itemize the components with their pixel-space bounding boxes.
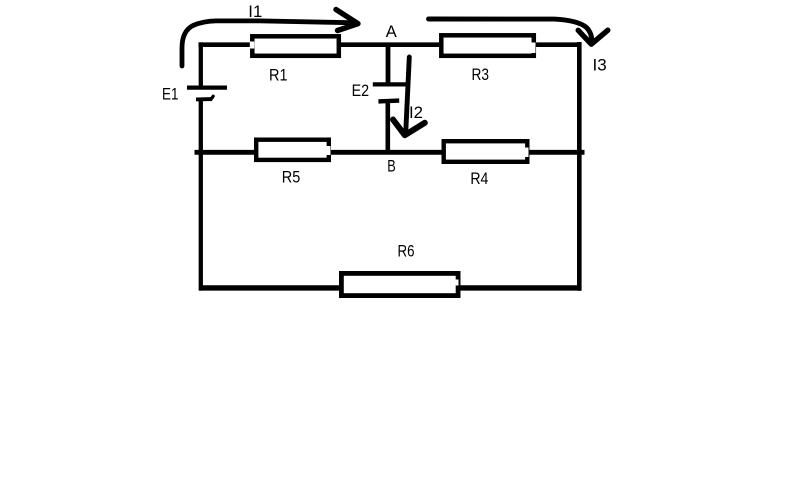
current arrow I2 head (393, 120, 425, 136)
svg-text:R6: R6 (398, 243, 415, 261)
resistor R1 (252, 36, 338, 56)
svg-text:R4: R4 (470, 170, 488, 188)
svg-text:I3: I3 (593, 56, 607, 74)
wire bottom horizontal (through R6) (199, 285, 581, 290)
battery E1 long plate (187, 85, 227, 89)
svg-text:R5: R5 (282, 168, 301, 186)
wire node A vertical (top wire down to E2) (386, 44, 391, 84)
wire middle horizontal (through R5, B, R4) (195, 150, 585, 155)
svg-text:R3: R3 (472, 66, 490, 84)
svg-text:R1: R1 (269, 67, 288, 85)
wire node B vertical (E2 down to middle wire) (385, 102, 390, 155)
wire right rail vertical (577, 42, 582, 291)
battery E2 long plate (373, 82, 407, 86)
wire top horizontal (left rail to right rail through R1, A, R3) (199, 42, 580, 47)
svg-text:E1: E1 (162, 85, 179, 103)
battery E1 short plate (196, 97, 212, 101)
resistor R4 (444, 141, 528, 162)
svg-text:A: A (386, 23, 397, 41)
svg-text:I2: I2 (409, 104, 423, 122)
wire left rail upper segment (top wire down to E1) (199, 42, 203, 87)
current arrow I1 head (336, 10, 358, 31)
svg-text:E2: E2 (352, 82, 370, 100)
resistor R5 (256, 140, 329, 160)
battery E2 short plate (378, 98, 399, 103)
resistor R6 (341, 273, 458, 295)
wire left rail lower segment (E1 down to bottom wire) (199, 99, 203, 291)
current arrow I1 shaft (curved tail + horizontal) (182, 21, 350, 66)
svg-text:I1: I1 (248, 3, 262, 21)
current arrow I3 shaft (horizontal + curve down) (429, 19, 593, 43)
current arrow I3 head (578, 30, 608, 44)
svg-text:B: B (387, 157, 396, 175)
resistor R3 (441, 35, 534, 56)
current arrow I2 shaft (406, 57, 410, 131)
